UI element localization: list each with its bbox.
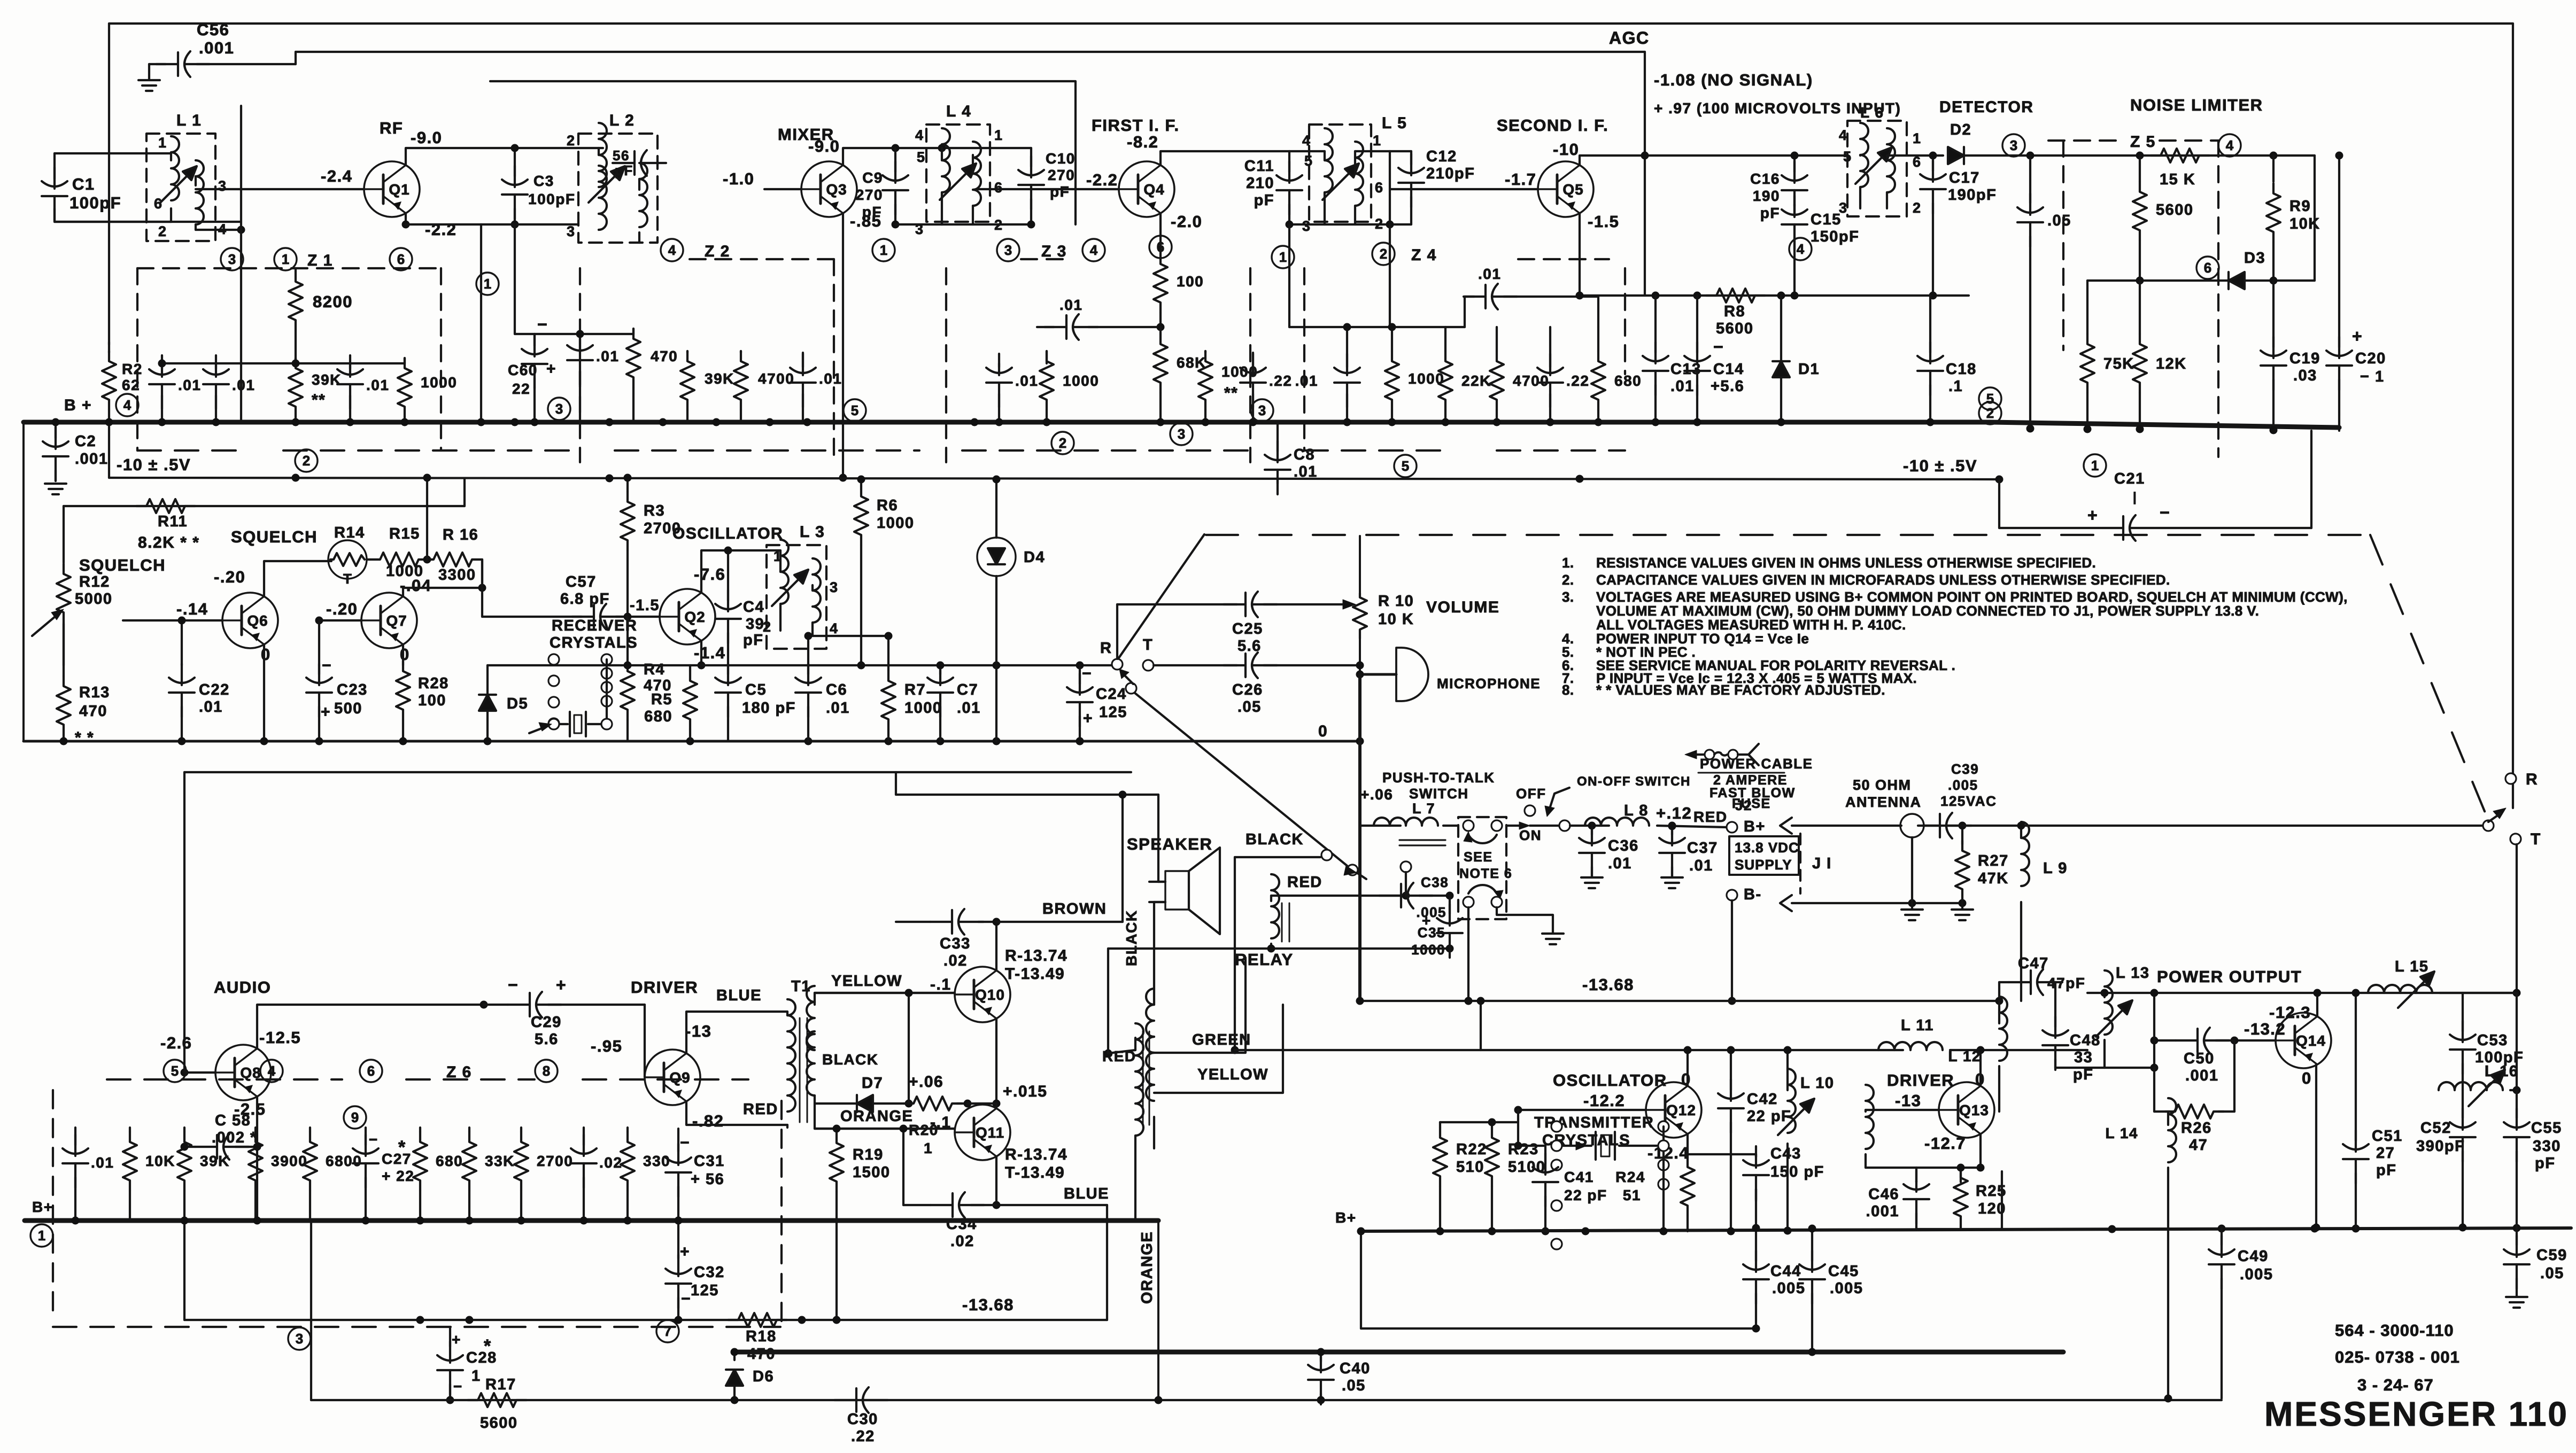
svg-text:-2.2: -2.2 — [425, 220, 457, 239]
wire AGC top rail — [296, 51, 1645, 53]
svg-text:.01: .01 — [232, 377, 255, 393]
svg-text:Z 5: Z 5 — [2130, 133, 2156, 151]
fuse — [1685, 744, 1759, 765]
transistor Q6 — [222, 593, 278, 648]
resistor 680 (Z4) — [1591, 327, 1642, 422]
label Q4 -2.0 — [1171, 212, 1202, 231]
label Q10 R-13.74 — [1005, 947, 1067, 965]
label B+ (tx) — [1335, 1209, 1357, 1226]
node 9 (Z6) — [344, 1106, 366, 1129]
svg-text:270: 270 — [1048, 167, 1075, 183]
svg-text:C21: C21 — [2114, 470, 2145, 487]
svg-text:.01: .01 — [819, 370, 842, 387]
svg-text:3: 3 — [1839, 200, 1848, 216]
label Q2 -1.4 — [694, 643, 725, 662]
wire detector bottom rail — [1576, 292, 1969, 300]
label ON-OFF SWITCH — [1545, 774, 1691, 817]
svg-text:150pF: 150pF — [1811, 228, 1859, 245]
svg-text:.22: .22 — [1566, 372, 1589, 389]
svg-text:.02: .02 — [950, 1233, 974, 1250]
capacitor C13 .01 — [1643, 296, 1701, 422]
svg-text:C1: C1 — [72, 175, 95, 193]
svg-text:+: + — [1422, 912, 1432, 929]
inductor L1 shield box — [146, 112, 215, 241]
svg-text:210: 210 — [1246, 175, 1274, 192]
resistor 39K (Z1) — [289, 358, 342, 422]
svg-text:DETECTOR: DETECTOR — [1939, 98, 2033, 116]
node tx rail dots — [1436, 1224, 2521, 1236]
capacitor C44 .005 — [1743, 1189, 1805, 1328]
svg-text:−: − — [2160, 503, 2170, 522]
svg-text:39: 39 — [746, 616, 764, 633]
svg-text:4: 4 — [830, 620, 839, 636]
svg-text:2: 2 — [1059, 435, 1066, 451]
resistor R9 10K — [2266, 156, 2320, 281]
svg-text:C7: C7 — [957, 681, 978, 698]
svg-text:39K: 39K — [312, 371, 342, 388]
svg-text:Z 3: Z 3 — [1041, 243, 1067, 260]
capacitor C41 22pF — [1533, 1146, 1607, 1236]
svg-text:YELLOW: YELLOW — [831, 973, 902, 990]
svg-text:3: 3 — [2010, 137, 2017, 153]
label RED (T1) — [743, 1101, 778, 1118]
svg-text:1000: 1000 — [421, 374, 457, 391]
svg-text:-13: -13 — [685, 1022, 711, 1040]
svg-text:100: 100 — [1177, 273, 1204, 290]
svg-text:.01: .01 — [1478, 266, 1501, 282]
module Z5 box — [2048, 133, 2218, 457]
svg-text:Q3: Q3 — [826, 181, 847, 198]
label MIXER — [778, 125, 834, 144]
capacitor C15 150pF — [1782, 196, 1859, 296]
wire relay black wire — [1235, 850, 1366, 879]
transistor Q12 — [1646, 1082, 1701, 1138]
svg-text:R8: R8 — [1724, 303, 1745, 320]
svg-text:-1.5: -1.5 — [1588, 212, 1619, 231]
svg-text:L 7: L 7 — [1412, 801, 1435, 817]
svg-text:4700: 4700 — [1513, 372, 1549, 389]
label Q14 -13.2 — [2244, 1020, 2286, 1038]
label FIRST I.F. — [1092, 116, 1180, 135]
wire mic bus heavy — [1356, 674, 1364, 1005]
transistor Q11 — [955, 1105, 1010, 1160]
svg-text:3 - 24- 67: 3 - 24- 67 — [2357, 1376, 2434, 1394]
svg-text:.05: .05 — [1342, 1377, 1366, 1394]
capacitor .05 (Z5) — [2017, 156, 2071, 431]
node 3 (Z1) — [221, 248, 243, 270]
svg-text:.03: .03 — [2293, 367, 2317, 384]
node Q1 emitter — [402, 221, 482, 423]
svg-text:BLACK: BLACK — [1123, 910, 1140, 967]
wire audio feed drop — [896, 772, 1158, 922]
wire Z1 row — [162, 362, 405, 364]
svg-text:D1: D1 — [1798, 361, 1820, 378]
svg-text:2: 2 — [303, 453, 310, 469]
svg-text:L 11: L 11 — [1901, 1017, 1934, 1034]
svg-text:SEE: SEE — [1464, 850, 1493, 865]
inductor L12 (pa) — [1948, 997, 2007, 1112]
svg-text:SQUELCH: SQUELCH — [79, 556, 166, 574]
transistor Q1 — [364, 161, 420, 217]
svg-text:RELAY: RELAY — [1235, 950, 1294, 969]
wire T drop — [2513, 844, 2521, 1090]
svg-text:5: 5 — [1843, 149, 1852, 165]
wire Q10 emitter — [993, 1019, 1001, 1108]
svg-text:ON: ON — [1519, 827, 1542, 843]
resistor R5 680 — [644, 665, 697, 741]
wire Q11 emitter BLUE — [993, 1156, 1108, 1209]
svg-text:5: 5 — [1304, 153, 1313, 169]
svg-text:C4: C4 — [743, 599, 764, 616]
svg-text:RECEIVER: RECEIVER — [552, 617, 637, 634]
wire L15 out — [2440, 993, 2517, 1031]
svg-text:C48: C48 — [2070, 1032, 2101, 1049]
wire Q2 base drop — [626, 617, 629, 665]
svg-text:1: 1 — [994, 127, 1003, 143]
node Z1 row 8200 — [292, 360, 300, 368]
svg-text:D7: D7 — [862, 1075, 883, 1092]
svg-text:7: 7 — [664, 1323, 671, 1339]
svg-text:-1.4: -1.4 — [694, 643, 725, 662]
svg-text:−: − — [537, 315, 548, 334]
svg-text:C18: C18 — [1946, 361, 1977, 378]
svg-text:-13: -13 — [1895, 1091, 1921, 1110]
svg-text:C36: C36 — [1608, 837, 1639, 854]
svg-text:4: 4 — [218, 221, 227, 237]
inductor L2 primary — [567, 123, 607, 239]
svg-text:C44: C44 — [1770, 1263, 1801, 1280]
svg-text:.02: .02 — [943, 952, 968, 969]
node 6 (Z5) — [2196, 257, 2219, 279]
svg-text:5: 5 — [1986, 391, 1994, 407]
svg-text:.1: .1 — [1948, 378, 1963, 395]
speaker — [1149, 848, 1220, 934]
label Q2 -1.5 — [630, 597, 660, 614]
transformer T2 right winding — [1146, 989, 1154, 1148]
svg-text:+: + — [2087, 506, 2098, 525]
svg-text:-.20: -.20 — [214, 568, 245, 586]
svg-text:RESISTANCE VALUES GIVEN IN OHM: RESISTANCE VALUES GIVEN IN OHMS UNLESS O… — [1596, 555, 2096, 571]
label AGC -1.08 — [1654, 71, 1813, 89]
svg-text:−: − — [453, 1378, 463, 1395]
microphone — [1356, 648, 1541, 701]
svg-text:OFF: OFF — [1516, 786, 1546, 802]
svg-text:.005: .005 — [1948, 777, 1978, 793]
svg-text:C47: C47 — [2018, 955, 2049, 972]
svg-text:C15: C15 — [1811, 211, 1842, 228]
resistor 15K — [2150, 149, 2209, 188]
capacitor C24 125 — [1067, 665, 1127, 745]
capacitor C28 1* — [437, 1327, 497, 1400]
svg-text:39K: 39K — [200, 1153, 230, 1169]
inductor L16 arrow — [2469, 1070, 2505, 1106]
svg-text:B +: B + — [64, 397, 92, 414]
svg-text:C50: C50 — [2184, 1050, 2215, 1067]
capacitor C1 100pF — [42, 153, 121, 222]
inductor L13 arrow — [2096, 1000, 2132, 1037]
resistor R4 470 — [621, 661, 672, 741]
wire left vertical — [108, 24, 110, 478]
wire Q9 base — [644, 1005, 646, 1077]
svg-text:150 pF: 150 pF — [1770, 1163, 1824, 1180]
wire Q11 base — [815, 1128, 955, 1130]
svg-text:POWER CABLE: POWER CABLE — [1700, 756, 1813, 772]
svg-text:.01: .01 — [1295, 372, 1318, 389]
svg-text:−: − — [1082, 665, 1092, 682]
svg-text:-.04: -.04 — [400, 576, 431, 595]
label AGC +.97 — [1654, 100, 1901, 116]
wire L5 bottom row — [1286, 221, 1412, 229]
capacitor C46 .001 — [1866, 1170, 1929, 1229]
svg-text:L 9: L 9 — [2043, 860, 2068, 877]
PTT contacts lower — [1463, 885, 1503, 907]
resistor R12 5000 pot — [57, 564, 113, 665]
svg-text:-12.7: -12.7 — [1924, 1134, 1966, 1153]
contact OFF — [1525, 805, 1535, 816]
diode D1 — [1773, 296, 1820, 422]
svg-text:C24: C24 — [1096, 686, 1127, 703]
svg-text:47K: 47K — [1978, 870, 2009, 887]
svg-text:pF: pF — [615, 162, 633, 178]
label Q12 -12.2 — [1583, 1091, 1625, 1110]
svg-text:C53: C53 — [2477, 1032, 2508, 1049]
node 4 (Z4) — [1789, 238, 1812, 260]
svg-text:B+: B+ — [1335, 1209, 1357, 1226]
wire osc mid rail — [488, 662, 1113, 670]
svg-text:1500: 1500 — [853, 1164, 891, 1181]
svg-text:3: 3 — [830, 579, 839, 595]
svg-text:C33: C33 — [940, 935, 971, 952]
label Q5 -10 — [1553, 140, 1579, 159]
capacitor C53 100pF — [2450, 1021, 2524, 1079]
svg-text:33: 33 — [2074, 1049, 2093, 1066]
svg-text:−: − — [1713, 337, 1724, 356]
wire second rail — [490, 81, 1076, 224]
svg-text:R27: R27 — [1978, 852, 2009, 869]
svg-text:C27: C27 — [382, 1151, 412, 1167]
svg-text:C56: C56 — [197, 20, 229, 39]
label RED (power) — [1693, 809, 1728, 825]
svg-text:R28: R28 — [418, 675, 449, 692]
capacitor C38 .005 — [1379, 874, 1454, 920]
inductor L16 — [2439, 1063, 2521, 1094]
contact T (right) — [2510, 830, 2541, 848]
label Q4 -2.2 — [1086, 170, 1118, 189]
wire Q10 collector — [978, 922, 996, 970]
svg-text:C25: C25 — [1232, 620, 1263, 638]
svg-text:100: 100 — [418, 692, 446, 709]
wire Q4 collector — [1161, 151, 1289, 165]
svg-text:3: 3 — [1302, 218, 1311, 234]
svg-text:680: 680 — [1614, 372, 1642, 389]
svg-text:AUDIO: AUDIO — [214, 978, 271, 997]
svg-text:Q2: Q2 — [684, 609, 705, 625]
svg-text:BLUE: BLUE — [1064, 1185, 1109, 1202]
svg-text:2.: 2. — [1562, 572, 1574, 588]
svg-text:1000: 1000 — [1063, 372, 1099, 389]
pot R12 wiper — [32, 609, 64, 636]
label FAST BLOW — [1709, 786, 1796, 801]
svg-text:*: * — [484, 1336, 492, 1356]
svg-text:6: 6 — [2204, 260, 2211, 276]
capacitor .22 (Z3) — [1240, 353, 1292, 422]
svg-text:10 K: 10 K — [1378, 611, 1414, 628]
svg-text:* *: * * — [75, 729, 94, 747]
svg-text:Z 4: Z 4 — [1411, 246, 1437, 264]
resistor R16 3300 — [423, 526, 482, 584]
svg-text:RF: RF — [380, 119, 403, 137]
wire R11 row — [64, 479, 465, 665]
svg-text:22K: 22K — [1461, 372, 1491, 389]
capacitor C43 150pF — [1743, 1145, 1824, 1201]
label Q13 0 — [1975, 1070, 1985, 1089]
wire Q12 emitter — [1687, 1134, 1689, 1157]
svg-text:.01: .01 — [1059, 297, 1082, 313]
inductor L6 shield box — [1847, 104, 1907, 216]
svg-text:D2: D2 — [1950, 121, 1971, 138]
svg-text:C32: C32 — [694, 1264, 725, 1281]
svg-text:+: + — [680, 1243, 690, 1261]
svg-text:5000: 5000 — [75, 590, 113, 608]
capacitor C59 .05 — [2504, 1228, 2567, 1308]
label part number 2 — [2335, 1348, 2460, 1366]
svg-text:Z 6: Z 6 — [446, 1063, 472, 1081]
wire Q10 base — [815, 989, 955, 997]
svg-text:-7.6: -7.6 — [694, 565, 725, 584]
diode D4 — [977, 476, 1045, 742]
node 4 (B+ bus) — [116, 394, 138, 416]
resistor 680 (audio) — [413, 1128, 463, 1221]
node 5 (Z4 bottom) — [1394, 455, 1417, 477]
svg-text:R-13.74: R-13.74 — [1005, 1146, 1067, 1163]
capacitor .01 (Z1 c) — [337, 355, 389, 422]
module Z6 dashes — [53, 1079, 782, 1327]
svg-text:+5.6: +5.6 — [1711, 378, 1744, 395]
capacitor C26 .05 — [1154, 652, 1364, 716]
node 1 (Z2) — [872, 239, 895, 261]
node C49 bottom — [2164, 1395, 2172, 1403]
svg-text:R18: R18 — [746, 1328, 777, 1345]
supply box 13.8VDC — [1729, 836, 1799, 875]
contact B- — [1727, 886, 1762, 903]
svg-text:+.015: +.015 — [1003, 1083, 1047, 1100]
svg-text:SPEAKER: SPEAKER — [1127, 835, 1212, 853]
wire top border — [109, 22, 2513, 25]
svg-text:C14: C14 — [1713, 361, 1744, 378]
diagonal to R contact — [1118, 534, 1204, 659]
svg-text:C52: C52 — [2420, 1120, 2451, 1137]
label RECEIVER CRYSTALS — [550, 617, 638, 651]
wire Q14 emitter — [2312, 1065, 2320, 1232]
node 1 (Z4 left) — [1272, 246, 1294, 268]
svg-text:MICROPHONE: MICROPHONE — [1437, 675, 1541, 691]
svg-text:-1.5: -1.5 — [630, 597, 660, 614]
wire C33 to brown — [993, 918, 1123, 926]
label MESSENGER 110 — [2264, 1395, 2569, 1433]
svg-text:190pF: 190pF — [1948, 187, 1997, 204]
svg-text:3: 3 — [1004, 242, 1012, 258]
label Q8 -12.5 — [259, 1028, 301, 1047]
label Q4 -8.2 — [1127, 133, 1158, 151]
svg-text:POWER OUTPUT: POWER OUTPUT — [2157, 967, 2302, 986]
svg-text:-.20: -.20 — [326, 600, 358, 618]
svg-text:.01: .01 — [199, 698, 223, 716]
wire Q8 base — [181, 1069, 216, 1077]
transmitter crystal pins left — [1551, 1121, 1562, 1249]
svg-text:FUSE: FUSE — [1732, 796, 1771, 811]
transistor Q5 — [1538, 161, 1593, 217]
resistor R24 51 — [1615, 1157, 1695, 1231]
wire R22/R23 top — [1440, 1110, 1522, 1150]
svg-text:62: 62 — [122, 377, 140, 393]
capacitor C56 .001 — [149, 20, 296, 77]
svg-text:22: 22 — [512, 380, 530, 397]
svg-text:C43: C43 — [1770, 1145, 1801, 1162]
svg-text:270: 270 — [856, 187, 883, 203]
svg-text:0: 0 — [400, 645, 410, 664]
transformer T2 left winding — [1135, 1023, 1143, 1221]
svg-text:.01: .01 — [1015, 372, 1038, 389]
label +.06 — [909, 1073, 943, 1091]
resistor 6800 (audio) — [303, 1128, 362, 1221]
wire Q8 base drop — [183, 772, 185, 1073]
svg-text:.005: .005 — [1772, 1280, 1805, 1297]
ground (lamp) — [1901, 866, 1923, 920]
svg-text:2: 2 — [1986, 405, 1994, 421]
svg-text:5600: 5600 — [2156, 201, 2194, 219]
svg-text:C 58: C 58 — [215, 1112, 251, 1129]
svg-text:.01: .01 — [1670, 378, 1695, 395]
resistor R15 1000 — [370, 525, 429, 580]
label YELLOW (T2) — [1197, 1066, 1268, 1083]
svg-text:75K: 75K — [2103, 355, 2134, 372]
wire L1 pin2 bottom — [55, 221, 171, 223]
svg-text:0: 0 — [2302, 1069, 2312, 1087]
svg-text:680: 680 — [436, 1153, 463, 1169]
label Q13 -12.7 — [1924, 1134, 1966, 1153]
node Z1 row left — [158, 360, 166, 368]
svg-text:47: 47 — [2189, 1137, 2208, 1154]
resistor 1000** (Z3) — [1198, 351, 1258, 422]
wire Q3 emitter — [839, 213, 847, 482]
label POWER OUTPUT — [2157, 967, 2302, 986]
svg-text:NOISE LIMITER: NOISE LIMITER — [2130, 96, 2263, 114]
svg-text:RED: RED — [743, 1101, 778, 1118]
svg-text:.01: .01 — [366, 377, 389, 393]
wire noise limiter top — [2004, 152, 2315, 160]
capacitor C18 .1 — [1917, 296, 1977, 422]
wire Q1 collector — [406, 148, 603, 165]
svg-text:8.: 8. — [1562, 682, 1574, 698]
svg-text:C46: C46 — [1868, 1186, 1899, 1203]
node 2 (right) — [1979, 402, 2001, 424]
svg-text:5: 5 — [917, 149, 926, 165]
svg-text:2: 2 — [567, 133, 576, 149]
svg-text:6: 6 — [1375, 180, 1384, 196]
capacitor C52 390pF — [2416, 1090, 2476, 1232]
svg-text:4: 4 — [123, 397, 131, 413]
label Q1 -2.4 — [321, 167, 352, 185]
node 6 (Z3) — [1149, 236, 1172, 258]
label BLACK (relay) — [1246, 831, 1304, 848]
contact T (mid) — [1143, 636, 1154, 671]
wire Q5 emitter — [1579, 213, 1581, 296]
wire Q10/Q11 mid — [968, 1104, 996, 1108]
capacitor .01 (Z2 b) — [790, 353, 842, 422]
capacitor C36 .01 — [1579, 824, 1639, 888]
transmitter crystal pins right — [1658, 1121, 1669, 1231]
svg-text:T: T — [343, 571, 352, 587]
